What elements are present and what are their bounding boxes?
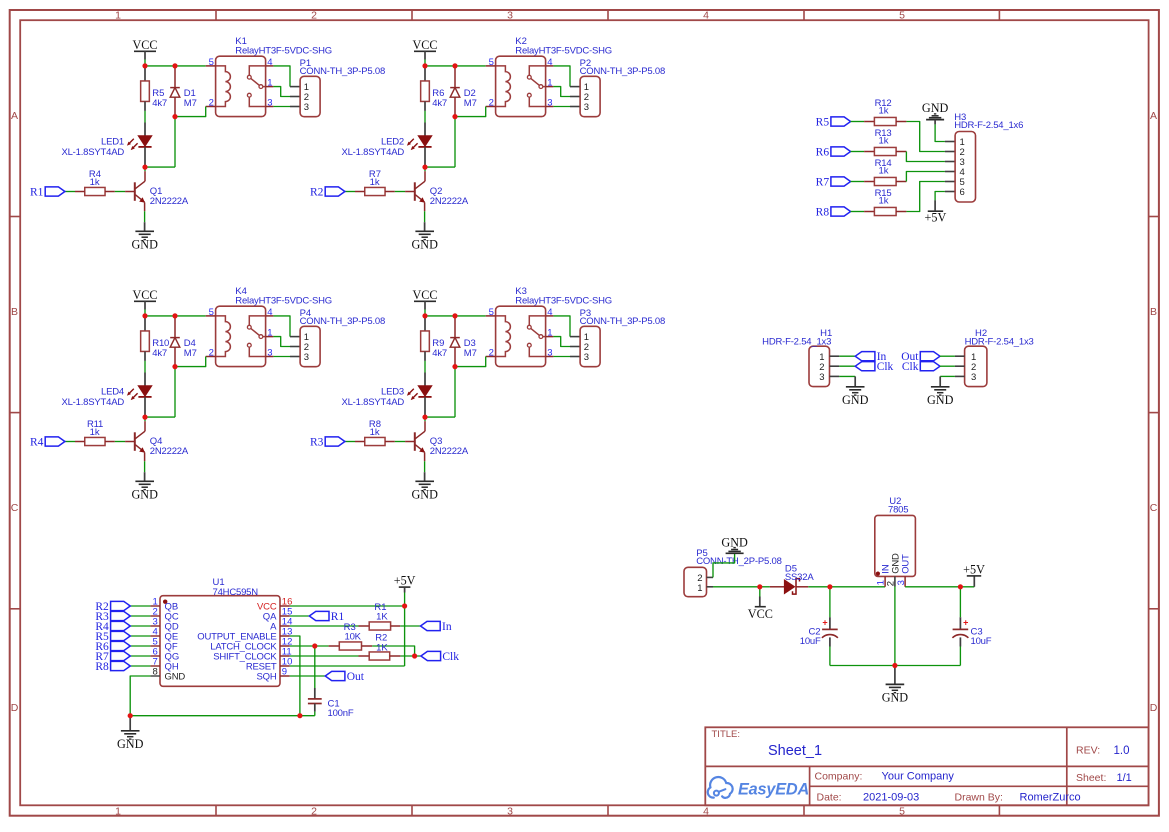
svg-text:3: 3 — [584, 352, 589, 363]
connector P4 — [300, 326, 320, 366]
svg-text:R7: R7 — [816, 176, 830, 188]
relay K3 pin 5 stub — [486, 315, 496, 317]
svg-text:1: 1 — [115, 9, 121, 21]
U1 pin 16 (VCC) — [280, 605, 290, 607]
svg-text:1: 1 — [697, 583, 702, 594]
svg-text:3: 3 — [507, 806, 513, 818]
svg-text:2N2222A: 2N2222A — [430, 446, 469, 457]
wire R6 to U1 pin 5 — [130, 645, 150, 647]
H1 pin 1 stub — [830, 355, 840, 357]
svg-text:3: 3 — [304, 102, 309, 113]
svg-text:1/1: 1/1 — [1117, 772, 1132, 784]
relay K3 pin 1 stub — [546, 336, 554, 338]
ground — [415, 480, 434, 482]
wire R7 to U1 pin 6 — [130, 655, 150, 657]
relay K4 pin 4 stub — [266, 315, 274, 317]
resistor R15 — [864, 211, 874, 213]
svg-text:1k: 1k — [370, 427, 380, 438]
net flag R5 — [111, 631, 131, 640]
wire U1 GND pin to ground rail — [130, 676, 150, 716]
wire Q3 emitter to GND — [424, 461, 426, 472]
diode D5 — [770, 586, 784, 588]
relay K2 pin 4 stub — [546, 65, 554, 67]
wire U1 A to R1 resistor — [290, 625, 359, 627]
relay K1 pin 2 stub — [206, 106, 216, 108]
net flag R4 — [111, 621, 131, 630]
junction — [757, 584, 762, 589]
U1 pin 10 (RESET) — [280, 665, 290, 667]
U2 pin 2 stub — [894, 576, 896, 586]
relay K1 pin 5 stub — [206, 65, 216, 67]
svg-text:8: 8 — [153, 667, 158, 678]
svg-text:Clk: Clk — [902, 361, 919, 373]
svg-text:CONN-TH_3P-P5.08: CONN-TH_3P-P5.08 — [580, 66, 666, 77]
relay K4 contact common — [249, 316, 265, 325]
net flag Clk — [855, 362, 875, 371]
title block col line REV — [1066, 727, 1068, 805]
resistor R6 — [424, 66, 426, 81]
svg-text:Sheet_1: Sheet_1 — [768, 743, 822, 759]
R11 left stub — [75, 441, 85, 443]
svg-text:3: 3 — [304, 352, 309, 363]
ground — [135, 480, 154, 482]
wire relay K2 pin 3 to P2 pin 3 — [553, 106, 570, 108]
svg-text:Company:: Company: — [815, 771, 863, 783]
svg-text:GND: GND — [117, 737, 144, 751]
wire R11 to Q4 base — [115, 441, 125, 443]
wire P5 pin 1 to D5 — [713, 586, 760, 588]
junction — [452, 63, 457, 68]
svg-text:Date:: Date: — [817, 792, 842, 804]
svg-text:EasyEDA: EasyEDA — [738, 781, 809, 799]
junction — [142, 313, 147, 318]
net flag Clk — [920, 362, 940, 371]
relay K3 body — [496, 306, 546, 366]
U1 pin 4 (QE) — [150, 635, 160, 637]
wire D3 to collector node — [454, 367, 456, 418]
relay K1 pin 4 stub — [266, 65, 274, 67]
svg-text:LED1: LED1 — [101, 137, 124, 148]
junction — [297, 713, 302, 718]
svg-text:HDR-F-2.54_1x3: HDR-F-2.54_1x3 — [762, 337, 831, 348]
wire R14 to H3 pin 4 — [906, 172, 945, 182]
wire R6 flag to R13 — [851, 151, 865, 153]
svg-text:C: C — [1150, 502, 1158, 514]
wire to GND symbol — [894, 666, 896, 685]
resistor R5 — [144, 66, 146, 81]
wire relay K4 pin 3 to P4 pin 3 — [273, 356, 290, 358]
junction — [827, 584, 832, 589]
svg-text:HDR-F-2.54_1x6: HDR-F-2.54_1x6 — [954, 120, 1023, 131]
junction — [172, 364, 177, 369]
svg-text:GND: GND — [922, 101, 949, 115]
relay K1 pin 1 stub — [266, 86, 274, 88]
svg-text:1k: 1k — [370, 177, 380, 188]
resistor R2 — [359, 655, 370, 657]
svg-text:3: 3 — [819, 372, 824, 383]
LED LED3 — [424, 373, 426, 386]
resistor R10 — [144, 316, 146, 331]
junction — [142, 63, 147, 68]
svg-text:GND: GND — [131, 238, 158, 252]
relay K4 pin 3 stub — [266, 356, 274, 358]
junction — [892, 663, 897, 668]
svg-text:R1: R1 — [331, 611, 345, 623]
svg-text:1: 1 — [115, 806, 121, 818]
capacitor C3 — [959, 587, 961, 617]
net flag R1 — [309, 611, 329, 620]
svg-text:RelayHT3F-5VDC-SHG: RelayHT3F-5VDC-SHG — [235, 45, 332, 56]
svg-text:RelayHT3F-5VDC-SHG: RelayHT3F-5VDC-SHG — [235, 295, 332, 306]
U1 pin 11 (SHIFT_CLOCK) — [280, 655, 290, 657]
ground — [931, 386, 950, 388]
transistor Q2 — [424, 167, 426, 171]
junction — [958, 584, 963, 589]
wire flag R4 to R11 — [65, 441, 75, 443]
net flag R5 — [831, 117, 851, 126]
wire D1 to collector node — [174, 117, 176, 168]
wire R2 to U1 pin 1 — [130, 605, 150, 607]
relay K1 NO contact — [247, 93, 251, 97]
wire R13 to H3 pin 3 — [906, 152, 945, 162]
junction — [422, 165, 427, 170]
svg-text:74HC595N: 74HC595N — [213, 587, 259, 598]
wire rail to GND symbol — [129, 716, 131, 731]
svg-text:XL-1.8SYT4AD: XL-1.8SYT4AD — [61, 397, 124, 408]
svg-text:In: In — [442, 621, 452, 633]
svg-text:Drawn By:: Drawn By: — [955, 792, 1003, 804]
frame column ticks — [215, 10, 217, 20]
junction — [128, 713, 133, 718]
wire RESET to +5V rail — [290, 665, 405, 667]
resistor R12 — [864, 121, 874, 123]
relay K3 NO contact — [527, 343, 531, 347]
P5 pin 1 stub — [707, 586, 714, 588]
svg-text:M7: M7 — [464, 98, 477, 109]
resistor R9 — [424, 316, 426, 331]
ground — [135, 230, 154, 232]
junction — [402, 603, 407, 608]
relay K1 contact common — [249, 66, 265, 75]
U1 pin 1 marker — [163, 600, 167, 604]
svg-text:R3: R3 — [310, 436, 324, 448]
svg-text:5: 5 — [899, 806, 905, 818]
relay K4 switch arm — [251, 328, 260, 335]
wire relay K1 pin 2 to D1 — [175, 107, 206, 117]
svg-text:RomerZurco: RomerZurco — [1020, 792, 1081, 804]
relay K1 body — [216, 56, 266, 116]
svg-text:LED2: LED2 — [381, 137, 404, 148]
svg-text:A: A — [1150, 110, 1157, 122]
U1 pin 8 (GND) — [150, 675, 160, 677]
svg-text:+: + — [963, 617, 968, 627]
LED LED1 emission arrows — [129, 139, 134, 144]
net flag R8 — [111, 661, 131, 670]
relay K2 NO contact — [527, 93, 531, 97]
wire H1 pin 1 to In — [839, 355, 855, 357]
svg-text:+5V: +5V — [963, 563, 985, 577]
connector P5 — [684, 567, 707, 596]
wire U2 GND down — [894, 587, 896, 666]
LED LED3 emission arrows — [409, 389, 414, 394]
relay K2 pin 5 stub — [486, 65, 496, 67]
resistor R7 — [365, 187, 385, 195]
ground rail of supply — [830, 665, 961, 667]
svg-text:HDR-F-2.54_1x3: HDR-F-2.54_1x3 — [965, 337, 1034, 348]
svg-text:VCC: VCC — [132, 288, 157, 302]
wire relay K2 pin 4 to P2 pin 1 — [553, 66, 570, 87]
wire LATCH_CLOCK to R3 — [290, 645, 329, 647]
wire relay K4 pin 1 to P4 pin 2 — [273, 337, 290, 347]
U1 pin 9 (SQH) — [280, 675, 290, 677]
U1 pin 7 (QH) — [150, 665, 160, 667]
wire +5V to H3 pin 6 — [935, 192, 945, 201]
svg-text:GND: GND — [842, 393, 869, 407]
resistor R14 — [864, 181, 874, 183]
wire VCC to node — [424, 51, 426, 59]
wire VCC rail to relay K2 pin 5 — [425, 65, 486, 67]
LED LED2 emission arrows — [409, 139, 414, 144]
svg-text:GND: GND — [411, 488, 438, 502]
capacitor C1 — [314, 646, 316, 688]
svg-text:7805: 7805 — [888, 504, 908, 515]
svg-text:M7: M7 — [184, 348, 197, 359]
wire flag R2 to R7 — [345, 191, 355, 193]
svg-text:CONN-TH_2P-P5.08: CONN-TH_2P-P5.08 — [696, 556, 782, 567]
svg-text:9: 9 — [282, 667, 287, 678]
wire Q4 emitter to GND — [144, 461, 146, 472]
U1 pin 14 (A) — [280, 625, 290, 627]
junction — [422, 313, 427, 318]
net flag R6 — [111, 641, 131, 650]
wire U1 QA to flag R1 — [290, 615, 310, 617]
power +5V — [928, 210, 943, 212]
svg-text:1k: 1k — [878, 166, 888, 177]
relay K2 pin 2 stub — [486, 106, 496, 108]
transistor Q1 — [144, 167, 146, 171]
transistor Q3 — [424, 417, 426, 421]
junction — [412, 653, 417, 658]
svg-text:A: A — [11, 110, 18, 122]
svg-text:VCC: VCC — [132, 38, 157, 52]
svg-text:TITLE:: TITLE: — [712, 729, 741, 740]
wire SHIFT_CLOCK to R2 — [290, 655, 359, 657]
svg-text:1k: 1k — [878, 106, 888, 117]
svg-text:5: 5 — [899, 9, 905, 21]
svg-text:LED4: LED4 — [101, 387, 124, 398]
wire SQH to Out flag — [290, 675, 326, 677]
net flag R4 — [45, 437, 65, 446]
relay K1 pin 3 stub — [266, 106, 274, 108]
diode D4 — [174, 316, 176, 338]
svg-text:1k: 1k — [90, 427, 100, 438]
wire P5 pin 2 to GND — [713, 553, 735, 577]
wire relay K4 pin 2 to D4 — [175, 357, 206, 367]
svg-text:R8: R8 — [95, 661, 109, 673]
svg-text:4k7: 4k7 — [152, 98, 167, 109]
R4 left stub — [75, 191, 85, 193]
transistor Q4 — [144, 417, 146, 421]
svg-text:1k: 1k — [878, 136, 888, 147]
svg-text:RelayHT3F-5VDC-SHG: RelayHT3F-5VDC-SHG — [515, 295, 612, 306]
wire OUTPUT_ENABLE down — [290, 636, 300, 716]
svg-text:REV:: REV: — [1076, 745, 1100, 757]
relay K3 contact common — [529, 316, 545, 325]
U1 pin 6 (QG) — [150, 655, 160, 657]
junction — [172, 63, 177, 68]
wire R7 flag to R14 — [851, 181, 865, 183]
connector P1 — [300, 76, 320, 116]
net flag R3 — [111, 611, 131, 620]
relay K3 pin 3 stub — [546, 356, 554, 358]
svg-text:1K: 1K — [376, 642, 388, 653]
svg-text:OUT: OUT — [901, 554, 912, 574]
R8 left stub — [355, 441, 365, 443]
wire R12 to H3 pin 2 — [906, 122, 945, 152]
net flag In — [421, 621, 441, 630]
net flag R3 — [325, 437, 345, 446]
wire R10 to LED4 — [144, 361, 146, 373]
svg-text:C: C — [11, 502, 19, 514]
svg-text:XL-1.8SYT4AD: XL-1.8SYT4AD — [61, 147, 124, 158]
wire relay K3 pin 2 to D3 — [455, 357, 486, 367]
LED LED4 — [144, 373, 146, 386]
junction — [142, 415, 147, 420]
svg-text:2: 2 — [311, 806, 317, 818]
wire to diode D5 — [760, 586, 770, 588]
svg-text:CONN-TH_3P-P5.08: CONN-TH_3P-P5.08 — [300, 316, 386, 327]
svg-text:10K: 10K — [345, 632, 362, 643]
U1 pin 3 (QD) — [150, 625, 160, 627]
svg-text:Out: Out — [347, 671, 365, 683]
svg-text:1.0: 1.0 — [1114, 745, 1130, 757]
svg-text:M7: M7 — [184, 98, 197, 109]
relay K2 pin 1 stub — [546, 86, 554, 88]
svg-text:Clk: Clk — [442, 651, 459, 663]
title block row line 2 — [810, 785, 1149, 787]
svg-text:GND: GND — [882, 691, 909, 705]
svg-text:3: 3 — [584, 102, 589, 113]
U1 pin 13 (OUTPUT_ENABLE) — [280, 635, 290, 637]
resistor R4 — [85, 187, 105, 195]
capacitor C2 — [829, 587, 831, 617]
relay K3 pin 4 stub — [546, 315, 554, 317]
junction — [422, 63, 427, 68]
svg-text:R4: R4 — [30, 436, 44, 448]
svg-text:2N2222A: 2N2222A — [150, 196, 189, 207]
svg-text:4k7: 4k7 — [432, 348, 447, 359]
connector H1 — [809, 346, 830, 386]
wire relay K4 pin 4 to P4 pin 1 — [273, 316, 290, 337]
wire R8 to U1 pin 7 — [130, 665, 150, 667]
net flag Clk — [421, 651, 441, 660]
VCC symbol below P5 wire — [759, 587, 761, 597]
svg-text:GND: GND — [131, 488, 158, 502]
ground — [846, 386, 865, 388]
LED LED1 — [144, 123, 146, 136]
net flag R6 — [831, 147, 851, 156]
net flag R2 — [325, 187, 345, 196]
svg-text:2N2222A: 2N2222A — [430, 196, 469, 207]
wire U2 OUT to +5V — [905, 586, 974, 588]
svg-text:+5V: +5V — [394, 574, 416, 588]
svg-text:+: + — [822, 617, 827, 627]
wire D5 to U2 IN — [808, 586, 830, 588]
relay K1 coil — [216, 66, 231, 107]
ground — [415, 230, 434, 232]
wire H2 pin 3 to GND — [955, 375, 965, 377]
svg-text:XL-1.8SYT4AD: XL-1.8SYT4AD — [341, 147, 404, 158]
net flag R2 — [111, 601, 131, 610]
wire D4 to collector node — [174, 367, 176, 418]
diode D1 — [174, 66, 176, 88]
wire R3 to Clk net — [372, 646, 414, 656]
svg-text:SQH: SQH — [257, 672, 277, 683]
svg-text:VCC: VCC — [412, 38, 437, 52]
wire VCC to node — [424, 301, 426, 309]
IC U1 74HC595N body — [160, 596, 280, 687]
wire Q1 emitter to GND — [144, 211, 146, 222]
junction — [452, 364, 457, 369]
junction — [142, 165, 147, 170]
relay K4 coil — [216, 316, 231, 357]
diode D2 — [454, 66, 456, 88]
wire H1 pin 2 to Clk — [839, 365, 855, 367]
wire R4 to U1 pin 3 — [130, 625, 150, 627]
svg-text:4: 4 — [703, 806, 709, 818]
U1 pin 15 (QA) — [280, 615, 290, 617]
wire VCC rail to relay K3 pin 5 — [425, 315, 486, 317]
svg-text:3: 3 — [971, 372, 976, 383]
U2 pin 3 stub — [904, 576, 906, 586]
connector H2 — [965, 346, 987, 386]
junction — [452, 313, 457, 318]
wire R2 to Clk flag — [400, 655, 421, 657]
svg-text:3: 3 — [507, 9, 513, 21]
wire relay K1 pin 3 to P1 pin 3 — [273, 106, 290, 108]
relay K1 switch arm — [251, 78, 260, 85]
junction — [172, 313, 177, 318]
net flag R1 — [45, 187, 65, 196]
connector P2 — [580, 76, 600, 116]
U2 pin 1 marker — [876, 572, 880, 576]
svg-text:2: 2 — [311, 9, 317, 21]
svg-text:CONN-TH_3P-P5.08: CONN-TH_3P-P5.08 — [580, 316, 666, 327]
power VCC — [755, 606, 766, 608]
svg-text:R6: R6 — [816, 146, 830, 158]
wire VCC to node — [144, 301, 146, 309]
svg-text:Sheet:: Sheet: — [1076, 772, 1106, 784]
connector H3 — [955, 132, 975, 203]
svg-text:D: D — [11, 702, 19, 714]
EasyEDA logo cloud — [708, 777, 733, 798]
svg-text:GND: GND — [927, 393, 954, 407]
svg-text:4: 4 — [703, 9, 709, 21]
net flag Out — [325, 671, 345, 680]
+5V symbol right — [973, 576, 975, 587]
title block col line logo — [809, 766, 811, 805]
H1 pin 2 stub — [830, 365, 840, 367]
svg-text:R1: R1 — [30, 186, 44, 198]
svg-text:R8: R8 — [816, 206, 830, 218]
svg-text:VCC: VCC — [748, 607, 773, 621]
svg-text:10uF: 10uF — [800, 636, 821, 647]
resistor R13 — [864, 151, 874, 153]
svg-text:R5: R5 — [816, 116, 830, 128]
wire Q2 emitter to GND — [424, 211, 426, 222]
title block row line 1 — [705, 765, 1148, 767]
wire U1 VCC to +5V rail — [290, 605, 405, 607]
